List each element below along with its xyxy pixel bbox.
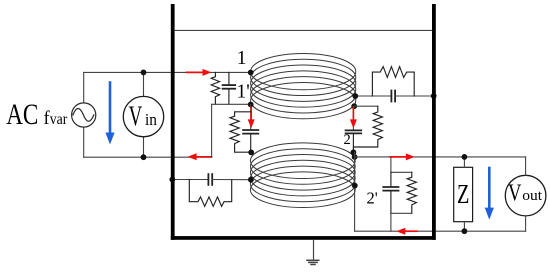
AC source symbol circle (72, 103, 96, 127)
inductor L1: top coil (6 turns) (251, 53, 356, 118)
red arrow: down from node 1' (248, 108, 255, 129)
resistor: right interwinding R (parallel) (353, 106, 382, 147)
wire: Vin bottom lead (143, 137, 145, 157)
wire: Vout top lead (525, 157, 527, 175)
wire: Z top lead (463, 157, 465, 167)
capacitor: top-right series C (horizontal) (391, 91, 395, 102)
blue arrow: Vout voltage direction (485, 168, 494, 220)
svg-text:V: V (129, 100, 143, 132)
wire: AC source top lead (83, 72, 85, 103)
wire: coil right edge down to bottom return (354, 152, 356, 231)
wire: AC source bottom lead (83, 127, 85, 157)
svg-text:in: in (145, 110, 157, 129)
wire: top coil right lower to parallel R branch (354, 105, 378, 107)
svg-text:V: V (508, 181, 522, 207)
wire: Vout bottom lead (525, 216, 527, 231)
blue arrow: Vin voltage direction (105, 83, 114, 145)
wire: node 1' down to interwinding cap (250, 105, 252, 131)
svg-text:2: 2 (344, 132, 351, 148)
capacitor: input shunt C (vertical) (223, 72, 236, 104)
node dot: output tap (352, 154, 358, 160)
svg-text:Z: Z (457, 178, 469, 209)
red arrow: down toward node 2 (350, 108, 357, 129)
wire: Vin top lead (143, 72, 145, 96)
capacitor: output shunt C (383, 172, 398, 213)
shield wall: bottom (thick) (171, 236, 436, 240)
node: lower coil left dot (248, 177, 254, 183)
shield wall: right (thick) (432, 4, 436, 240)
capacitor: left interwinding C (243, 130, 258, 152)
voltmeter U Vin circle (123, 96, 163, 136)
inductor L2: bottom coil (6 turns) (250, 143, 355, 208)
node 2' dot (352, 183, 358, 189)
red arrow: return current (left) (188, 153, 212, 160)
wire: output RC tap (391, 157, 412, 172)
svg-text:out: out (522, 188, 543, 204)
red arrow: bottom return (left) (396, 228, 417, 235)
resistor: left interwinding R (parallel) (230, 112, 251, 152)
node dot: top coil right upper (352, 93, 358, 99)
voltmeter Vout circle (505, 175, 546, 216)
wire: output RC bottom bracket (391, 213, 412, 231)
wire: input top horizontal from AC source to node 1 (84, 71, 251, 73)
wire: series cap to lower coil left node (212, 179, 251, 181)
wire: top coil right end to wall (through series RC) (355, 95, 391, 97)
node dot: top coil right lower (351, 103, 357, 109)
junction dot: Z top (462, 154, 468, 160)
wire: output bottom horizontal (355, 230, 526, 232)
red arrow: input current (right) (187, 69, 212, 76)
node 1 dot (248, 70, 254, 76)
junction dot: Vin bottom (141, 154, 147, 160)
wire: bottom-left return horizontal (84, 156, 212, 158)
impedance Z box (454, 167, 473, 221)
node 2 dot (351, 149, 357, 155)
wire: series cap to right wall (395, 95, 434, 97)
junction dot: Z bottom (462, 228, 468, 234)
wire: return riser (211, 104, 213, 157)
svg-text:AC: AC (6, 99, 38, 131)
wire: top coil right lower down to interwinding cap (352, 106, 354, 130)
junction dot on right wall (431, 93, 437, 99)
svg-text:2': 2' (367, 188, 378, 207)
resistor: output shunt R (vertical) (407, 172, 416, 213)
capacitor: right interwinding C (346, 130, 362, 152)
red arrow: output current (right) (390, 153, 415, 160)
node: lower coil top-left junction dot (248, 150, 254, 156)
junction dot: Vin top (141, 70, 147, 76)
svg-text:1: 1 (237, 48, 247, 69)
shield wall: left (thick) (171, 4, 175, 240)
resistor: input shunt R (vertical) (211, 72, 219, 104)
ground: stem (313, 240, 315, 260)
AC sine wave glyph (73, 109, 94, 122)
wire: wall to series cap (bottom-left) (172, 179, 208, 181)
capacitor: bottom-left series C (horizontal) (208, 174, 212, 185)
svg-text:1': 1' (237, 82, 250, 103)
node 1' dot (248, 102, 254, 108)
ground: bars (307, 260, 319, 264)
resistor: bottom-left bypass R (horizontal loop) (189, 180, 231, 207)
wire: input RC bottom bracket to node 1' (212, 103, 251, 105)
wire: output top horizontal to Vout (355, 156, 526, 158)
wire: Z bottom lead (463, 222, 465, 232)
resistor: top-right bypass R (horizontal loop) (372, 67, 414, 96)
junction dot on left wall (169, 177, 175, 183)
wire: thin top closing line (175, 29, 432, 31)
svg-text:var: var (50, 111, 68, 128)
